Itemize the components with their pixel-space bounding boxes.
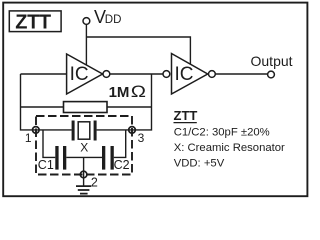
svg-text:ZTT: ZTT: [174, 108, 198, 123]
svg-text:C1/C2: 30pF ±20%: C1/C2: 30pF ±20%: [174, 127, 270, 139]
resonator module dashed box: [36, 116, 132, 175]
value label 1M ohm: [109, 82, 146, 101]
wire ground bus (C1 to C2): [66, 156, 102, 158]
svg-text:C2: C2: [114, 158, 130, 172]
svg-text:DD: DD: [105, 14, 122, 26]
op-amp U1 (IC inverter): [67, 54, 110, 94]
notes title ZTT: [174, 108, 198, 123]
border frame: [3, 3, 307, 197]
wire C1 drop: [43, 130, 55, 158]
VDD terminal: [83, 7, 121, 27]
svg-text:X: Creamic Resonator: X: Creamic Resonator: [174, 142, 285, 154]
svg-text:1M: 1M: [109, 84, 130, 101]
svg-text:IC: IC: [175, 64, 194, 85]
wire left feedback (U1 input down to node 1): [21, 74, 72, 130]
wire U2 output to Output terminal: [215, 73, 267, 75]
svg-text:2: 2: [91, 176, 98, 190]
capacitor C1: [38, 146, 67, 172]
wire C2 up drop: [114, 130, 126, 158]
svg-text:X: X: [80, 140, 88, 154]
svg-text:Output: Output: [251, 53, 293, 69]
svg-text:1: 1: [25, 131, 32, 145]
wire VDD branch to U2 top: [86, 37, 190, 65]
resistor R1 leads: [21, 106, 152, 108]
svg-text:Ω: Ω: [131, 82, 146, 101]
wire U1 input: [21, 73, 67, 75]
svg-text:ZTT: ZTT: [15, 11, 51, 33]
resistor R1: [64, 102, 108, 113]
Output terminal: [251, 53, 293, 78]
node 2 (pin 2): [80, 171, 98, 189]
svg-text:VDD: +5V: VDD: +5V: [174, 158, 225, 170]
label ZTT (title box): [9, 11, 61, 34]
wire VDD to U1 top: [85, 24, 87, 65]
capacitor C2: [102, 146, 130, 172]
node 1 (pin 1): [25, 127, 39, 145]
svg-text:3: 3: [138, 131, 145, 145]
svg-text:C1: C1: [38, 158, 54, 172]
node 3 (pin 3): [129, 127, 145, 145]
wire U1 output to U2 input: [110, 73, 163, 75]
svg-text:IC: IC: [70, 64, 89, 85]
ground: [76, 186, 91, 194]
wire right (node 3 up to U2 input net): [97, 74, 152, 130]
wire center drop to node 2: [83, 157, 85, 186]
op-amp U2 (IC inverter): [163, 54, 215, 95]
resonator X: [72, 121, 97, 155]
